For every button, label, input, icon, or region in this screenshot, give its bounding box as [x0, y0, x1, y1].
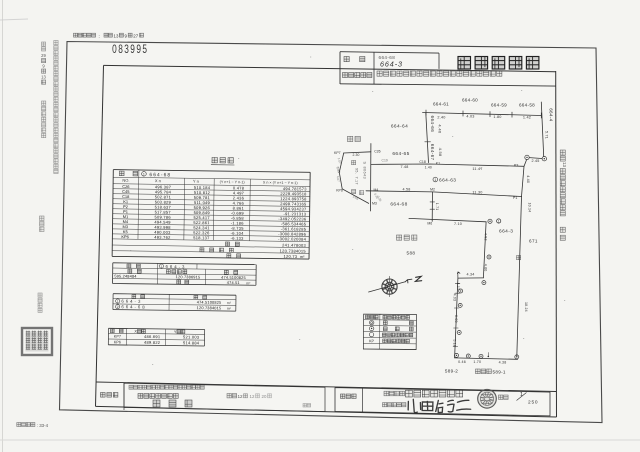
- 664-3 east side upper vertical: [483, 222, 486, 278]
- svg-text:12: 12: [250, 394, 255, 399]
- svg-text:6 6 4 - 3: 6 6 4 - 3: [121, 299, 141, 304]
- svg-text:120.7386915: 120.7386915: [176, 275, 201, 279]
- svg-text:664-64: 664-64: [391, 124, 408, 130]
- svg-text:514.884: 514.884: [183, 340, 200, 345]
- svg-text:-3002.020084: -3002.020084: [278, 236, 306, 241]
- svg-text:664-59: 664-59: [491, 102, 507, 107]
- svg-text:664-68: 664-68: [390, 201, 407, 207]
- right margin registration date vertical: [560, 150, 567, 240]
- svg-text:C26: C26: [374, 150, 380, 154]
- scan noise specks: [310, 57, 311, 58]
- svg-text::: :: [99, 34, 100, 39]
- svg-text:5.71: 5.71: [544, 131, 548, 139]
- svg-text:4.80: 4.80: [484, 264, 488, 272]
- survey points and 2.45 tie: [525, 155, 529, 159]
- svg-text:(Y n+1 − Y n-1): (Y n+1 − Y n-1): [220, 180, 245, 184]
- svg-text:KP7: KP7: [114, 335, 121, 339]
- svg-text:13: 13: [114, 33, 119, 38]
- left margin small label above seal: [38, 293, 42, 297]
- svg-text:474.5100825: 474.5100825: [197, 301, 222, 305]
- svg-text:4.58: 4.58: [403, 188, 411, 192]
- svg-text:474.51: 474.51: [227, 281, 240, 285]
- svg-text:489.822: 489.822: [144, 340, 160, 345]
- svg-text:588: 588: [407, 251, 416, 256]
- 664-3 east boundary long 18.24: [517, 197, 522, 357]
- svg-text:1: 1: [117, 299, 119, 303]
- svg-text:120.73: 120.73: [283, 254, 297, 259]
- svg-text:1: 1: [434, 178, 436, 182]
- svg-text:664-65: 664-65: [392, 151, 409, 157]
- scan artifact top-left line: [0, 19, 28, 20]
- road label 道路: [348, 136, 353, 141]
- svg-text:KP6: KP6: [336, 189, 343, 193]
- svg-text:589-1: 589-1: [493, 369, 506, 374]
- right top vertical to survey point: [541, 102, 543, 157]
- svg-text:518.137: 518.137: [193, 235, 209, 240]
- left margin date column 平成29年9月13日: [41, 42, 46, 84]
- svg-text:7.10: 7.10: [454, 222, 462, 226]
- 664-3 west boundary: [455, 278, 458, 358]
- svg-text:4.93: 4.93: [453, 294, 457, 302]
- svg-text:1.40: 1.40: [425, 166, 432, 170]
- svg-text:X n: X n: [155, 178, 161, 183]
- svg-text:-6.133: -6.133: [231, 236, 245, 241]
- title block 土地の所在 row: [340, 71, 556, 86]
- scale 1/250: [499, 395, 503, 399]
- header registration date stamp: [74, 33, 144, 38]
- 664-3 south boundary: [455, 358, 518, 359]
- svg-text:M3: M3: [372, 202, 377, 206]
- left margin 京都地方法務局 column: [42, 101, 46, 105]
- 664-3 step corner 4.34: [458, 277, 484, 279]
- document number 083995: [112, 44, 148, 57]
- svg-text:1.13: 1.13: [456, 283, 460, 291]
- svg-text:250: 250: [528, 400, 538, 406]
- svg-text:671: 671: [529, 238, 538, 243]
- bottom-left document number: [17, 423, 49, 428]
- pin label: [517, 256, 521, 260]
- svg-text:M4: M4: [374, 188, 379, 192]
- pentagon parcel outline: [344, 152, 371, 153]
- svg-text:18.24: 18.24: [524, 302, 528, 312]
- svg-text:4.92: 4.92: [484, 233, 488, 241]
- point under step corner: [482, 281, 486, 285]
- svg-text:27: 27: [133, 33, 138, 38]
- inner form frame: [96, 65, 557, 417]
- svg-text:120.7384015: 120.7384015: [197, 306, 222, 310]
- M2 drop line: [431, 192, 433, 221]
- benchmark coordinates table: [108, 328, 204, 346]
- parcel summary table 664-3: [113, 263, 257, 286]
- svg-text:X n × (Y n+1 − Y n-1): X n × (Y n+1 − Y n-1): [263, 181, 298, 185]
- middle boundary line lower: [366, 191, 522, 197]
- svg-text:KP6: KP6: [121, 234, 129, 239]
- left margin certificate text column: [54, 41, 58, 45]
- svg-text:KP7: KP7: [334, 151, 341, 155]
- svg-text:2.30: 2.30: [353, 153, 360, 157]
- parcel area list table: [113, 294, 236, 311]
- vertical boundary 664-66 664-67: [426, 113, 429, 163]
- svg-text:4.38: 4.38: [499, 361, 507, 365]
- svg-text:1: 1: [498, 220, 500, 224]
- svg-text:P1: P1: [513, 196, 517, 200]
- svg-text:29: 29: [41, 53, 46, 58]
- svg-text:664-66: 664-66: [430, 116, 435, 133]
- svg-text:S: S: [363, 162, 367, 165]
- svg-text:4.58: 4.58: [438, 148, 443, 157]
- svg-text:95.: 95.: [355, 168, 359, 174]
- svg-text:P3: P3: [514, 163, 518, 167]
- svg-text:10.14: 10.14: [528, 203, 532, 213]
- svg-text:664-58: 664-58: [519, 103, 535, 108]
- svg-text:1: 1: [161, 265, 163, 269]
- svg-text:11.30: 11.30: [472, 190, 482, 194]
- svg-text:M2: M2: [430, 187, 435, 191]
- main coordinate table 664-68: [112, 170, 310, 260]
- east boundary P3 to P1: [522, 160, 527, 197]
- svg-text:NO.: NO.: [122, 178, 129, 183]
- svg-text:Y n: Y n: [193, 179, 199, 184]
- svg-text:521.003: 521.003: [183, 334, 200, 339]
- applicant box: [335, 388, 550, 416]
- title 地積測量図: [458, 57, 471, 70]
- svg-text:664-4: 664-4: [548, 108, 553, 121]
- scan artifact left edge line: [2, 0, 4, 452]
- town label 西柳町: [397, 235, 402, 240]
- svg-text:7.17: 7.17: [355, 177, 359, 185]
- svg-text:80643: 80643: [363, 167, 367, 180]
- area calculation table title 求積表: [211, 157, 235, 165]
- outer frame: [60, 42, 603, 423]
- svg-text:C19: C19: [382, 158, 388, 162]
- svg-text:2.40: 2.40: [437, 116, 445, 120]
- svg-text:4.46: 4.46: [437, 124, 442, 133]
- svg-text:20: 20: [262, 394, 267, 399]
- middle boundary line upper: [371, 164, 524, 166]
- svg-text:493.762: 493.762: [154, 235, 170, 240]
- svg-text:13: 13: [41, 75, 46, 80]
- pentagon receipt stamp text: [352, 161, 356, 165]
- svg-text:4.03: 4.03: [466, 114, 474, 118]
- svg-text:6 6 4 - 6 8: 6 6 4 - 6 8: [121, 304, 145, 309]
- lot 664-63 label with circle: [433, 177, 438, 182]
- svg-text:0.46: 0.46: [458, 360, 466, 364]
- svg-text:6 6 4 - 3: 6 6 4 - 3: [165, 264, 185, 269]
- svg-text:1: 1: [143, 173, 145, 177]
- maker strip top border: [97, 382, 557, 392]
- svg-text:12: 12: [238, 394, 244, 399]
- north arrow compass: [382, 279, 397, 294]
- svg-text:2.45: 2.45: [532, 159, 540, 163]
- svg-text:083995: 083995: [112, 44, 148, 57]
- title block 地番 box: [340, 52, 439, 85]
- registrar square seal: [22, 328, 52, 355]
- maker content box: [124, 383, 325, 411]
- svg-text:KP6: KP6: [114, 340, 121, 344]
- svg-text:1.70: 1.70: [473, 360, 481, 364]
- svg-text:4.34: 4.34: [467, 273, 475, 277]
- maker label cell: [123, 383, 125, 410]
- map group: [334, 98, 553, 375]
- svg-text:4.40: 4.40: [526, 175, 530, 183]
- svg-text:589-2: 589-2: [445, 369, 458, 374]
- top lots boundary line: [423, 113, 542, 116]
- svg-text:7.48: 7.48: [401, 165, 409, 169]
- svg-text:1.80: 1.80: [493, 115, 501, 119]
- svg-text:664-67: 664-67: [430, 144, 435, 161]
- svg-text:5.18: 5.18: [452, 339, 456, 347]
- svg-text:KP: KP: [369, 339, 375, 343]
- svg-text:474.5100825: 474.5100825: [221, 276, 246, 280]
- legend table: [363, 314, 416, 349]
- svg-text:13: 13: [562, 162, 567, 167]
- svg-text:664-60: 664-60: [462, 98, 478, 103]
- applicant round stamp: [478, 390, 497, 409]
- svg-text:2: 2: [117, 305, 119, 309]
- svg-text:: 33-4: : 33-4: [37, 423, 49, 428]
- svg-text:664-61: 664-61: [433, 102, 449, 107]
- scan artifact bottom line: [0, 439, 640, 441]
- top lots ticks: [425, 110, 427, 115]
- svg-text:C18: C18: [419, 160, 425, 164]
- points at 664-3 north corner: [488, 219, 492, 223]
- svg-text:664-3: 664-3: [380, 60, 403, 69]
- svg-text:486.691: 486.691: [144, 334, 160, 339]
- svg-text:6.03: 6.03: [454, 315, 458, 323]
- svg-text:K1: K1: [436, 161, 440, 165]
- svg-text:241.478003: 241.478003: [282, 243, 306, 248]
- svg-text:664-63: 664-63: [439, 178, 456, 184]
- 7.10 boundary line: [409, 218, 486, 221]
- svg-text:1.71: 1.71: [435, 203, 439, 211]
- svg-text:595.248484: 595.248484: [114, 274, 137, 278]
- left margin 登記官 column: [40, 216, 45, 221]
- svg-text:1.42: 1.42: [523, 116, 531, 120]
- svg-text:664-3: 664-3: [499, 228, 513, 234]
- svg-text:M6: M6: [427, 221, 432, 225]
